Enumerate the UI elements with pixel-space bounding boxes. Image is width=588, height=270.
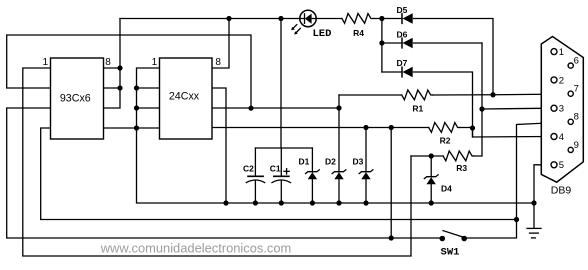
- svg-text:D1: D1: [299, 156, 310, 166]
- svg-text:3: 3: [559, 104, 564, 115]
- svg-text:5: 5: [559, 160, 564, 171]
- svg-text:D7: D7: [397, 58, 408, 68]
- svg-text:LED: LED: [313, 28, 332, 40]
- svg-text:R3: R3: [456, 163, 467, 173]
- svg-text:8: 8: [574, 112, 579, 123]
- svg-text:C1: C1: [270, 164, 281, 174]
- svg-text:DB9: DB9: [551, 185, 572, 197]
- svg-text:R4: R4: [353, 28, 364, 38]
- svg-text:93Cx6: 93Cx6: [60, 92, 91, 104]
- svg-text:1: 1: [43, 57, 49, 68]
- svg-text:2: 2: [559, 75, 564, 86]
- svg-text:1: 1: [152, 57, 158, 68]
- svg-text:24Cxx: 24Cxx: [169, 90, 200, 102]
- svg-text:7: 7: [574, 84, 579, 95]
- svg-text:1: 1: [559, 47, 564, 58]
- svg-text:SW1: SW1: [441, 247, 460, 259]
- svg-text:6: 6: [574, 56, 579, 67]
- svg-text:8: 8: [215, 57, 221, 68]
- svg-text:8: 8: [105, 57, 111, 68]
- svg-text:R1: R1: [412, 104, 423, 114]
- svg-text:D4: D4: [441, 184, 452, 194]
- svg-text:www.comunidadelectronicos.com: www.comunidadelectronicos.com: [100, 241, 292, 256]
- svg-text:D5: D5: [397, 5, 408, 15]
- svg-text:9: 9: [574, 140, 579, 151]
- svg-text:D6: D6: [397, 30, 408, 40]
- svg-text:R2: R2: [440, 135, 451, 145]
- svg-text:4: 4: [559, 132, 564, 143]
- svg-text:C2: C2: [243, 164, 254, 174]
- svg-text:D3: D3: [353, 156, 364, 166]
- svg-text:D2: D2: [325, 156, 336, 166]
